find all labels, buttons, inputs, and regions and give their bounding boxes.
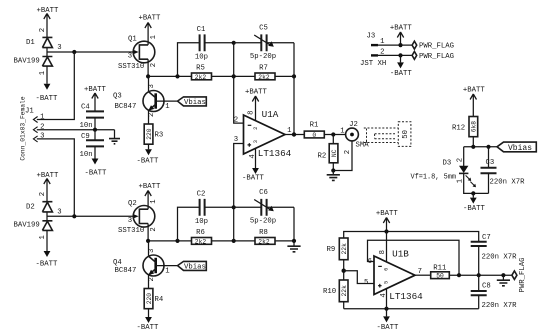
svg-text:1: 1 [380,38,385,46]
wire Q1 source row [148,75,294,77]
wire U1B pin4 stub [386,289,388,309]
power +BATT (D1) [37,7,60,37]
svg-text:2k2: 2k2 [258,74,270,81]
svg-text:R8: R8 [259,229,268,237]
wire C6 right column [293,207,295,241]
svg-text:2: 2 [457,158,465,162]
svg-text:J3: J3 [367,33,376,41]
svg-text:R4: R4 [155,296,164,304]
ground GND (J2) [327,171,340,181]
resistor R10 22k [323,280,348,309]
svg-text:+BATT: +BATT [139,15,162,23]
svg-text:2k2: 2k2 [195,74,207,81]
svg-text:R9: R9 [327,246,336,254]
node R7-C5 right junction [292,74,296,78]
wire U1A pin3 vertical [234,144,244,208]
resistor R9 22k [327,238,349,280]
node C1-C5 junction [232,41,236,45]
svg-text:220: 220 [146,293,153,305]
svg-text:1: 1 [39,234,47,239]
transistor Q4 BC847 (NPN) [113,241,178,289]
svg-text:5: 5 [364,279,368,287]
svg-text:C1: C1 [197,26,206,34]
wire U1B output [415,274,431,276]
svg-text:BC847: BC847 [115,103,137,111]
node R1-J2-R2 junction [331,132,335,136]
node Q2 source junction [146,239,150,243]
ground GND (C6/R8) [287,241,300,252]
wire Vbias row (R12/D3/C3) [464,146,497,148]
node D1-J1 junction [72,50,76,54]
svg-text:JST XH: JST XH [360,60,386,68]
node C2 right junction (U1A pin3 net) [232,205,236,209]
capacitor C7 220n X7R [471,234,517,275]
svg-text:Vf=1.8, 5mm: Vf=1.8, 5mm [411,174,457,182]
svg-text:22k: 22k [341,243,348,255]
svg-text:U1B: U1B [392,248,409,259]
coax cable to load (dashed) [364,128,398,143]
node J3 pin2 [398,53,402,57]
svg-text:C8: C8 [482,283,491,291]
power +BATT (U1B pin8) [376,210,399,232]
capacitor C2 10p [195,191,234,227]
svg-text:R3: R3 [155,132,164,140]
svg-text:C6: C6 [259,189,268,197]
wire +BATT row to R9 and C7 [344,232,479,242]
node U1B pin4 junction [384,307,388,311]
wire U1A output [285,134,304,136]
resistor R1 0 [304,122,346,140]
flag PWR_FLAG (pin2) [412,52,454,61]
node source-C2 column junction [175,239,179,243]
svg-text:+BATT: +BATT [139,183,162,191]
power +BATT (Q1) [139,15,162,45]
svg-text:Vbias: Vbias [184,99,206,107]
node R8-C6 ground junction [292,239,296,243]
svg-text:10p: 10p [195,218,208,226]
load resistor 50 (dashed box) [398,122,411,147]
svg-text:1: 1 [165,267,170,275]
svg-text:2: 2 [253,127,259,130]
wire -BATT row (R10/C8) [344,308,479,310]
svg-text:2: 2 [39,28,47,32]
svg-text:R12: R12 [452,125,465,133]
power -BATT (D3) [463,193,486,213]
resistor R8 2k2 [255,229,275,245]
transistor Q1 SST310 (JFET) [118,34,158,76]
wire Q2 source row [148,240,294,242]
svg-text:8: 8 [379,250,387,254]
wire C1C5 node to R5R7 node [233,43,235,77]
power +BATT (J3) [390,25,413,46]
capacitor C1 10p [195,26,234,62]
svg-text:1: 1 [165,103,170,111]
capacitor C4 10n [80,104,105,130]
svg-text:10n: 10n [80,122,93,130]
connector J2 SMA [333,121,369,171]
node R12 bottom junction [471,145,475,149]
svg-text:+BATT: +BATT [390,25,413,33]
svg-text:6k8: 6k8 [471,121,478,133]
svg-text:C5: C5 [259,25,268,33]
svg-text:2: 2 [150,63,158,67]
node D2-J1 junction [72,214,76,218]
svg-text:D3: D3 [443,160,452,168]
svg-text:Vbias: Vbias [508,144,532,153]
svg-text:SST310: SST310 [118,63,144,71]
svg-text:3: 3 [128,217,132,225]
svg-text:R1: R1 [310,122,319,130]
svg-text:1: 1 [150,34,158,39]
node source-C1 column junction [175,74,179,78]
label Vbias (Q3) [178,97,207,107]
svg-text:220n X7R: 220n X7R [490,178,526,186]
op-amp U1B LT1364 [364,248,423,302]
resistor R2 NC [318,135,338,171]
svg-text:2: 2 [39,192,47,196]
node output feedback junction [292,132,296,136]
capacitor C5 5p-20p (variable) [234,25,294,61]
svg-text:1: 1 [150,199,158,204]
svg-text:R10: R10 [323,288,336,296]
svg-text:D2: D2 [26,204,35,212]
svg-text:5p-20p: 5p-20p [250,217,276,225]
wire C2 left column [178,207,200,241]
resistor R4 220 [144,289,164,318]
svg-text:LT1364: LT1364 [389,291,423,302]
svg-text:+BATT: +BATT [84,86,107,94]
wire D1 junction to Q1 gate [47,44,133,52]
svg-text:Q2: Q2 [128,200,137,208]
svg-text:Q1: Q1 [128,36,137,44]
svg-text:220n X7R: 220n X7R [482,302,518,310]
label Vbias (R12) [497,142,536,153]
svg-text:3: 3 [57,209,61,217]
svg-text:6: 6 [383,268,389,271]
svg-text:+BATT: +BATT [463,87,486,95]
node J2-R2 ground junction [331,168,335,172]
resistor R5 2k2 [192,65,212,81]
op-amp U1A LT1364 [234,109,292,159]
svg-text:2: 2 [234,117,238,125]
power -BATT (D2) [36,251,59,269]
svg-text:2: 2 [344,150,352,154]
LED D3 Vf=1.8, 5mm [411,147,489,194]
power -BATT (U1A pin4) [242,148,265,182]
svg-text:2: 2 [150,227,158,231]
node C7-C8 junction [477,273,481,277]
node Q1 source junction [146,74,150,78]
ground GND (J1 pin2) [109,130,120,144]
svg-text:-BATT: -BATT [137,158,160,166]
node R5-R7 junction [232,74,236,78]
svg-text:-BATT: -BATT [36,261,59,269]
svg-text:3: 3 [57,44,61,52]
svg-text:-BATT: -BATT [36,95,59,103]
svg-text:R5: R5 [196,65,205,73]
wire D2 junction to Q2 gate [47,209,133,217]
power -BATT (C9) [85,159,108,178]
svg-text:Q3: Q3 [113,93,122,101]
power -BATT (D1) [36,84,59,103]
transistor Q3 BC847 (NPN) [113,76,178,124]
svg-text:2: 2 [148,113,156,117]
svg-text:C2: C2 [197,191,206,199]
svg-text:-BATT: -BATT [137,324,160,332]
node C4-C9 midpoint [93,128,97,132]
svg-text:-BATT: -BATT [390,70,413,78]
capacitor C9 10n [80,130,105,160]
svg-text:SST310: SST310 [118,227,144,235]
connector J3 JST XH [360,33,412,69]
wire C1 left column [178,43,200,77]
svg-text:PWR_FLAG: PWR_FLAG [519,257,527,292]
svg-text:1: 1 [340,128,345,136]
svg-text:NC: NC [331,149,338,157]
resistor R12 6k8 [452,117,478,147]
svg-text:1: 1 [40,113,45,121]
label Vbias (Q4) [178,261,207,271]
svg-text:10n: 10n [80,151,93,159]
svg-text:PWR_FLAG: PWR_FLAG [419,43,454,51]
svg-text:3: 3 [148,249,156,253]
node R6-R8 junction [232,239,236,243]
capacitor C8 220n X7R [471,275,517,310]
node D3-C3 bottom junction [471,191,475,195]
svg-text:LT1364: LT1364 [258,148,292,159]
power -BATT (R4) [137,317,160,332]
wire midpoint to U1B pin5 [344,271,374,284]
svg-text:50: 50 [402,130,410,139]
svg-text:+BATT: +BATT [376,210,399,218]
flag PWR_FLAG (pin1) [412,41,454,50]
wire junction down to J1 pin1 [37,52,75,120]
resistor R11 50 [431,265,512,280]
svg-text:Vbias: Vbias [184,264,206,272]
wire inverting input U1A pin2 [234,76,244,123]
svg-text:-BATT: -BATT [463,205,486,213]
svg-text:BAV199: BAV199 [14,222,40,230]
svg-text:10p: 10p [195,54,208,62]
svg-text:1: 1 [39,70,47,75]
svg-text:2: 2 [380,48,384,56]
node U1B pin8 junction [384,229,388,233]
svg-text:U1A: U1A [262,109,279,120]
svg-text:2: 2 [148,277,156,281]
wire C5 right column down to output node [293,43,295,135]
svg-text:PWR_FLAG: PWR_FLAG [419,53,454,61]
node C3 top junction [486,145,490,149]
svg-text:50: 50 [436,273,444,280]
svg-text:-BATT: -BATT [85,170,108,178]
node J3 pin1 [398,43,402,47]
diode D2 BAV199 (dual) [14,192,53,251]
node R9-R10 midpoint [342,269,346,273]
transistor Q2 SST310 (JFET) [118,199,158,241]
connector J1 Conn_01x03_Female [20,96,45,160]
power -BATT (U1B) [377,309,400,332]
svg-text:3: 3 [128,53,132,61]
svg-text:-BATT: -BATT [377,324,400,332]
ground GND (output) [497,275,510,286]
wire U1B pin6 feedback loop [368,240,460,275]
svg-text:R7: R7 [259,65,268,73]
capacitor C3 220n X7R [481,147,526,194]
svg-text:D1: D1 [26,39,35,47]
svg-text:2k2: 2k2 [258,238,270,245]
power -BATT (R3) [137,149,160,165]
resistor R3 220 [144,124,163,149]
svg-text:SMA: SMA [356,141,370,149]
svg-text:220n X7R: 220n X7R [482,254,518,262]
svg-text:BAV199: BAV199 [14,57,40,65]
power -BATT (J3) [390,55,413,77]
svg-text:2k2: 2k2 [195,238,207,245]
flag PWR_FLAG (output) [512,257,527,292]
svg-text:BC847: BC847 [115,267,137,275]
diode D1 BAV199 (dual) [14,28,53,84]
svg-text:+BATT: +BATT [245,89,268,97]
wire U1B pin8 stub [386,232,388,262]
power +BATT (U1A pin8) [245,89,268,121]
svg-text:0: 0 [312,132,316,139]
svg-text:R6: R6 [196,229,205,237]
power +BATT (Q2) [139,183,162,209]
power +BATT (D2) [37,172,60,202]
power +BATT (C4) [84,86,107,111]
svg-text:3: 3 [253,140,259,143]
svg-text:C3: C3 [486,159,495,167]
svg-text:3: 3 [148,84,156,88]
svg-text:Conn_01x03_Female: Conn_01x03_Female [20,96,27,160]
wire J1 pin3 down to D2 junction [37,139,75,216]
node ground junction (output) [501,273,505,277]
svg-text:22k: 22k [341,285,348,297]
svg-text:220: 220 [146,128,153,140]
resistor R6 2k2 [192,229,212,245]
svg-text:R2: R2 [318,152,327,160]
resistor R7 2k2 [255,65,275,81]
svg-text:5: 5 [383,281,389,284]
capacitor C6 5p-20p (variable) [234,189,294,225]
node R11-feedback junction [457,273,461,277]
svg-text:Q4: Q4 [113,259,122,267]
wire C2C6 node to R6R8 node [233,207,235,241]
svg-text:-BATT: -BATT [242,174,265,182]
svg-text:5p-20p: 5p-20p [250,53,276,61]
svg-text:8: 8 [248,111,256,115]
power +BATT (R12) [463,87,486,117]
wire J1 pin2 to C4/C9 midpoint and ground [37,129,115,131]
